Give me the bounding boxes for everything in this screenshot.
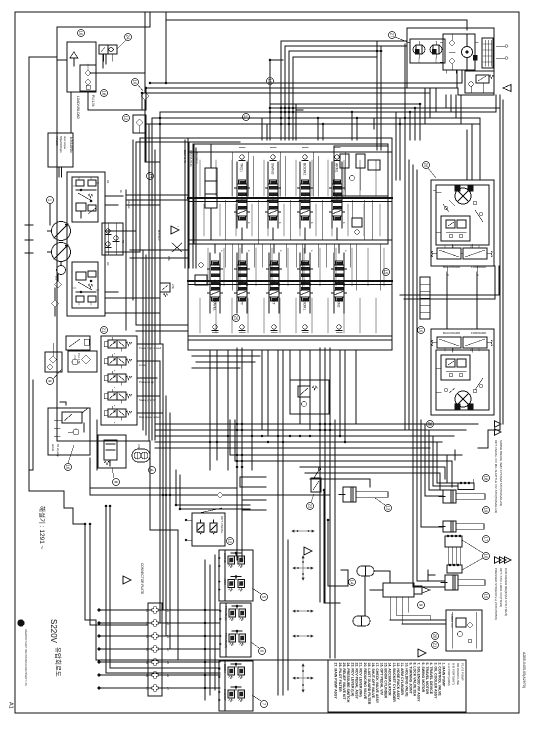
- svg-text:b: b: [310, 222, 313, 224]
- svg-text:Pressure up: Pressure up: [139, 380, 155, 384]
- svg-text:13. BUCKET CYLINDER: 13. BUCKET CYLINDER: [392, 663, 396, 703]
- ref 17a: [147, 173, 154, 180]
- wire bundle D2 links: [230, 420, 452, 490]
- svg-text:7: 7: [262, 703, 267, 706]
- pilot relief block box: [67, 42, 96, 92]
- svg-text:BOOM2: BOOM2: [303, 163, 307, 175]
- svg-text:Swing priority: Swing priority: [139, 398, 156, 402]
- svg-text:PRESSED STD(EXCV+) 2STD(TR5/8): PRESSED STD(EXCV+) 2STD(TR5/8): [494, 568, 498, 620]
- legend right col: [447, 663, 465, 686]
- warning tri d: [304, 547, 312, 555]
- swing motor box: [443, 34, 475, 70]
- note block 2: [494, 557, 511, 620]
- travel2 brake box: [441, 355, 470, 380]
- regulator 2 detail: [73, 268, 99, 305]
- svg-text:27: 27: [390, 33, 395, 38]
- travel1 wires: [433, 190, 483, 248]
- mcv striping upper: [200, 160, 376, 196]
- svg-text:a: a: [113, 422, 115, 424]
- swing gauge detail: [483, 40, 492, 66]
- ref 6: [259, 648, 266, 655]
- svg-text:AT of MCV: AT of MCV: [195, 152, 198, 164]
- ref 23: [307, 503, 314, 510]
- svg-text:P2 of pump: P2 of pump: [56, 444, 59, 457]
- pilot return pair: [106, 506, 220, 673]
- label TR(L): [237, 162, 247, 184]
- svg-text:ARM: ARM: [223, 579, 227, 586]
- svg-text:24. PRESSURE SWITCH: 24. PRESSURE SWITCH: [346, 663, 350, 703]
- mcv striping lower: [208, 248, 384, 286]
- tri marker right: [503, 85, 511, 92]
- lever valve: [311, 468, 321, 492]
- ref 19: [483, 507, 490, 514]
- travel2 motor: [455, 391, 471, 407]
- pilot feed pair: [85, 480, 90, 625]
- pu filter box: [68, 351, 97, 372]
- spool SWING: [266, 180, 281, 220]
- wire bundle D2: [230, 455, 460, 479]
- svg-text:a: a: [310, 250, 313, 252]
- ref 21: [101, 327, 108, 334]
- svg-text:유압회로도: 유압회로도: [54, 647, 62, 677]
- label BOOM1: [300, 297, 310, 313]
- spool OPT: [235, 261, 250, 301]
- wire pilot bundle S: [176, 470, 250, 513]
- svg-text:1: 1: [48, 199, 53, 202]
- svg-text:12: 12: [124, 116, 129, 121]
- svg-text:FORWARD: FORWARD: [471, 331, 487, 335]
- wire ref16a: [138, 85, 143, 91]
- bucket cylinder: [441, 575, 485, 590]
- engine shaft: [59, 167, 62, 177]
- svg-text:P3: P3: [54, 276, 58, 280]
- svg-text:6. SWING MOTOR: 6. SWING MOTOR: [421, 663, 425, 693]
- swing gauge box: [482, 38, 493, 68]
- wire x377: [377, 42, 381, 150]
- ref 16a: [132, 79, 139, 86]
- pilot group boom/bkt: [218, 661, 253, 711]
- svg-text:TR(L): TR(L): [240, 163, 244, 172]
- opt pedal box: [192, 513, 225, 546]
- svg-text:19. LAST GUARD FILTER: 19. LAST GUARD FILTER: [367, 663, 371, 705]
- svg-text:18. SHUT-OFF VALVE: 18. SHUT-OFF VALVE: [371, 663, 375, 699]
- svg-text:20. REDUCING VALVE: 20. REDUCING VALVE: [363, 663, 367, 700]
- small labels col: [121, 200, 160, 244]
- svg-text:a: a: [113, 387, 115, 389]
- mcv vert grid2: [225, 152, 380, 290]
- mcv small relief 1: [352, 218, 362, 234]
- wire ref7: [252, 695, 261, 701]
- svg-text:Travel high speed: Travel high speed: [139, 346, 162, 350]
- ref 26b: [427, 421, 434, 428]
- wire ref6: [251, 642, 259, 648]
- svg-text:4. TRAVEL DEVICE: 4. TRAVEL DEVICE: [429, 663, 433, 695]
- svg-text:A1: A1: [8, 702, 14, 709]
- pump port lines: [105, 196, 140, 292]
- wire boundary tie: [29, 380, 33, 470]
- right bus: [467, 100, 503, 448]
- svg-text:3. OIL COOLER ASSY: 3. OIL COOLER ASSY: [433, 663, 437, 700]
- spool ARM1: [330, 180, 345, 220]
- svg-text:15. BOOM CYLINDER: 15. BOOM CYLINDER: [384, 663, 388, 699]
- note block 1: [494, 421, 503, 513]
- wire bundle D: [155, 424, 478, 448]
- svg-text:DR DRAIN LINE: DR DRAIN LINE: [456, 663, 460, 685]
- svg-text:21: 21: [433, 643, 438, 648]
- svg-text:air brk: air brk: [51, 444, 54, 452]
- svg-text:C/W DOZER REQD(A4 STD,TR1/2): C/W DOZER REQD(A4 STD,TR1/2): [504, 568, 508, 616]
- wire pair B: [142, 27, 462, 110]
- ref 19c: [267, 78, 274, 85]
- E mark 1: [455, 450, 462, 460]
- mcv left entry verticals: [185, 140, 196, 268]
- svg-text:27. MAIN PUMP ASSY: 27. MAIN PUMP ASSY: [334, 663, 338, 700]
- mcv to travel verticals: [396, 112, 400, 180]
- svg-text:TRAVEL(L): TRAVEL(L): [224, 606, 228, 621]
- ref 10a: [78, 30, 85, 37]
- svg-text:19: 19: [484, 508, 489, 513]
- svg-text:2.5k: 2.5k: [167, 256, 171, 262]
- filter diamond 2: [52, 288, 59, 316]
- mcv inner top: [194, 144, 388, 244]
- svg-text:SWING: SWING: [223, 553, 227, 564]
- wire box right of crosses: [324, 490, 348, 603]
- pilot feed bottom: [90, 625, 148, 660]
- svg-text:해설기 : 1291 ~: 해설기 : 1291 ~: [38, 506, 47, 550]
- ref 13: [385, 505, 392, 512]
- swing makeup checks: [449, 34, 477, 70]
- svg-text:5. TRAVEL MOTOR: 5. TRAVEL MOTOR: [425, 663, 429, 695]
- swing motor: [462, 34, 473, 70]
- pilot group travel: [219, 603, 251, 657]
- pump center manifold: [102, 223, 123, 255]
- accumulator 2: [353, 616, 370, 626]
- mcv top entry verticals: [262, 112, 357, 140]
- travel2 wires: [436, 348, 483, 392]
- swing valve capsule 2: [430, 41, 442, 58]
- svg-text:18: 18: [102, 91, 107, 96]
- solenoid v2: [104, 354, 132, 372]
- svg-text:A2: A2: [106, 262, 110, 266]
- svg-text:20: 20: [433, 634, 438, 639]
- svg-text:PU-1.5k: PU-1.5k: [91, 95, 95, 107]
- swivel wires: [390, 597, 446, 624]
- axis mark 1: [292, 530, 314, 532]
- svg-text:OPT. STD. LOCK V/V(TR4/2): OPT. STD. LOCK V/V(TR4/2): [499, 568, 503, 607]
- arm cylinder: [439, 521, 484, 532]
- arm1 regen detail: [340, 154, 380, 190]
- pressure sw pair: [132, 444, 150, 462]
- mcv gallery mid: [188, 240, 392, 244]
- warning tri b: [123, 576, 131, 584]
- ref 18: [483, 475, 490, 482]
- wire bundle A drops: [281, 41, 293, 140]
- ref 10: [65, 464, 72, 471]
- svg-text:a: a: [113, 405, 115, 407]
- travel1 motor detail: [449, 186, 477, 206]
- svg-text:9. TURNING JOINT: 9. TURNING JOINT: [408, 663, 412, 695]
- wire ref9: [53, 369, 62, 379]
- travel1 counterbalance: [432, 245, 493, 259]
- svg-text:8. LOCK VALVE 2EA: 8. LOCK VALVE 2EA: [413, 663, 417, 697]
- engine text: [55, 136, 74, 153]
- boom cylinder: [339, 487, 388, 502]
- ref 15: [483, 593, 490, 600]
- regulator 1 detail: [73, 177, 99, 218]
- axis mark 3: [293, 610, 313, 612]
- pu filter diamond: [72, 355, 91, 365]
- reducing valve box: [98, 435, 126, 468]
- wire ref5: [252, 588, 261, 594]
- engine box: [48, 133, 73, 167]
- svg-text:18: 18: [484, 476, 489, 481]
- svg-text:1. MAIN PUMP: 1. MAIN PUMP: [442, 663, 446, 688]
- svg-text:25: 25: [234, 316, 239, 321]
- label BOOM2: [300, 162, 310, 184]
- spool TR(L): [235, 180, 250, 220]
- ref 24: [125, 34, 132, 41]
- svg-text:58ps/2100rpm: 58ps/2100rpm: [59, 136, 63, 153]
- xx mark: [167, 243, 182, 262]
- wire ref8: [112, 468, 114, 478]
- wire bundle C turns: [400, 104, 420, 140]
- svg-text:a: a: [220, 250, 223, 252]
- shutoff detail: [51, 420, 79, 457]
- svg-text:BKT: BKT: [272, 298, 276, 305]
- travel1 inner box: [436, 185, 489, 245]
- svg-text:9: 9: [419, 604, 424, 607]
- valve sub relief: [80, 64, 96, 91]
- svg-text:9: 9: [48, 380, 53, 383]
- svg-text:16: 16: [484, 554, 489, 559]
- wire ref23: [311, 494, 314, 502]
- travel inter-block wires: [447, 272, 477, 329]
- svg-text:B1: B1: [145, 609, 148, 613]
- spool TRAVEL: [208, 261, 223, 301]
- opt pedal stubs: [185, 519, 192, 541]
- wire left column verticals: [126, 118, 155, 440]
- pu valve: [66, 336, 90, 364]
- connector symbols: [98, 607, 169, 691]
- travel2 inner box: [436, 350, 489, 410]
- solenoid bank box: [101, 336, 137, 425]
- check valve diamond: [141, 12, 149, 110]
- svg-text:ARM2: ARM2: [337, 298, 341, 308]
- svg-text:a: a: [113, 353, 115, 355]
- boundary ticks: [25, 225, 33, 253]
- svg-text:21. RCV LEVER (RH): 21. RCV LEVER (RH): [359, 663, 363, 697]
- swing to bus verticals: [425, 88, 446, 124]
- ref16 leaders: [462, 540, 483, 570]
- ref 11c: [243, 114, 250, 121]
- svg-text:10: 10: [79, 31, 84, 36]
- wire E loops: [240, 477, 266, 510]
- svg-text:A-A PORT(ARM): A-A PORT(ARM): [447, 663, 451, 686]
- ref 27: [389, 32, 396, 39]
- label SWING: [268, 162, 278, 184]
- pu left box: [45, 343, 62, 372]
- riser ARM1: [331, 147, 345, 240]
- svg-text:b: b: [342, 222, 345, 224]
- svg-text:A4: A4: [166, 648, 169, 652]
- svg-text:B7: B7: [145, 687, 148, 691]
- wire ref27: [395, 37, 410, 43]
- manifold checks: [105, 223, 119, 255]
- wire ref13: [375, 498, 385, 505]
- hose rack: [420, 277, 430, 319]
- ref 20: [432, 633, 439, 640]
- opt pedal valves: [197, 508, 224, 534]
- pilot shutoff box: [48, 408, 90, 455]
- ref 14: [349, 579, 356, 586]
- negcon box: [290, 380, 329, 414]
- wire top box: [165, 20, 167, 83]
- solenoid v3: [104, 371, 132, 389]
- gear pump: [54, 262, 66, 281]
- svg-text:!: !: [176, 226, 180, 227]
- legend parts list: [328, 660, 466, 712]
- svg-text:14. ACCUMULATOR: 14. ACCUMULATOR: [388, 663, 392, 696]
- pump 2: [48, 243, 71, 262]
- svg-text:5: 5: [262, 596, 267, 599]
- svg-text:a: a: [247, 250, 250, 252]
- svg-text:A6: A6: [166, 674, 169, 678]
- riser OPT: [237, 244, 250, 332]
- svg-text:A3: A3: [166, 635, 169, 639]
- svg-text:2. CONTROL VALVE: 2. CONTROL VALVE: [437, 663, 441, 697]
- travel1 motor: [455, 188, 471, 204]
- solenoid v5: [104, 406, 132, 424]
- svg-text:26: 26: [424, 163, 429, 168]
- travel1 ports: [447, 266, 479, 277]
- svg-text:BOOM: BOOM: [223, 664, 227, 673]
- wire boundary jog: [29, 56, 57, 58]
- axis mark 5: [293, 664, 313, 692]
- svg-text:BACKWARD: BACKWARD: [443, 331, 461, 335]
- svg-text:16: 16: [419, 328, 424, 333]
- svg-text:b: b: [247, 222, 250, 224]
- svg-text:LOAD/UNLOAD: LOAD/UNLOAD: [76, 96, 80, 120]
- riser BKT: [269, 244, 282, 332]
- svg-text:A5: A5: [166, 661, 169, 665]
- svg-text:A1: A1: [106, 180, 110, 184]
- filter diamond 1: [55, 275, 62, 289]
- ref 15b: [383, 269, 390, 276]
- travel mid bus: [400, 266, 499, 299]
- wire bundle D drops left: [155, 413, 160, 430]
- svg-text:Dr: Dr: [119, 190, 123, 193]
- bucket cyl block: [447, 564, 462, 573]
- label ARM2: [334, 297, 344, 313]
- ref 16: [483, 553, 490, 560]
- lock vv detail: [452, 612, 476, 648]
- solenoid bank outputs: [137, 344, 163, 413]
- wire boundary top band: [166, 12, 467, 30]
- cyl2 block: [458, 479, 474, 490]
- wire bundle A: [281, 41, 407, 57]
- travel2 motor detail: [449, 388, 477, 409]
- swing drop lines: [419, 58, 436, 63]
- port labels: [106, 180, 123, 266]
- mcv E mark: [296, 105, 303, 140]
- accumulator wires: [365, 571, 390, 616]
- svg-text:13: 13: [386, 506, 391, 511]
- swing gauge ext: [496, 45, 508, 60]
- svg-text:SWING: SWING: [271, 163, 275, 175]
- mcv small relief 2: [195, 263, 207, 285]
- wire bundle C drops: [136, 95, 500, 344]
- svg-text:21: 21: [102, 328, 107, 333]
- mcv drop wires: [210, 350, 356, 560]
- spool BOOM1: [298, 261, 313, 301]
- svg-text:24: 24: [126, 35, 131, 40]
- svg-text:2-way: 2-way: [139, 363, 147, 367]
- swing outer boundary: [407, 28, 494, 95]
- svg-text:B3: B3: [145, 635, 148, 639]
- svg-text:17: 17: [484, 537, 489, 542]
- axis mark 2: [293, 556, 313, 580]
- ref 12a: [123, 115, 130, 122]
- regulator 2 box: [72, 262, 98, 308]
- svg-text:BACKWARD: BACKWARD: [443, 265, 461, 269]
- svg-text:max torque: max torque: [63, 136, 67, 150]
- mcv left entry labels: [183, 150, 198, 167]
- pump 1: [48, 222, 71, 241]
- travel1 brake detail: [446, 220, 466, 238]
- wire boundary stair: [29, 57, 178, 660]
- travel2 brake detail: [446, 359, 466, 377]
- svg-text:B-B PORT(BKT): B-B PORT(BKT): [452, 663, 456, 685]
- logo mark: [18, 620, 24, 626]
- svg-text:4TNE98: 4TNE98: [55, 136, 59, 146]
- mcv E mark2: [374, 119, 381, 129]
- label ARM1: [332, 162, 342, 184]
- riser TR(L): [236, 147, 250, 240]
- svg-text:16. OPT PEDAL V/V: 16. OPT PEDAL V/V: [379, 663, 383, 696]
- svg-text:OPT. PEDAL V/V M/L SHUTTLE V/V: OPT. PEDAL V/V M/L SHUTTLE V/V STD(TRAVE…: [494, 440, 498, 513]
- mcv gallery upper: [188, 152, 392, 202]
- wire ref26: [428, 168, 436, 178]
- svg-text:7. SOLENOID V/V ASSY: 7. SOLENOID V/V ASSY: [417, 663, 421, 703]
- ref 25: [233, 315, 240, 322]
- mcv striping bottom: [200, 298, 376, 333]
- svg-text:S220V: S220V: [49, 619, 58, 644]
- travel1 brake box: [441, 216, 470, 241]
- svg-text:23. RCV LEVER (LH): 23. RCV LEVER (LH): [350, 663, 354, 697]
- ref 12: [227, 538, 234, 545]
- ref 18a: [101, 90, 108, 97]
- check diamond pilot: [90, 492, 330, 498]
- ref 9: [47, 378, 54, 385]
- reducing valve spool: [104, 440, 117, 466]
- axis mark 4: [293, 635, 313, 637]
- travel2 outer: [431, 329, 494, 415]
- svg-text:B4: B4: [145, 648, 148, 652]
- svg-text:SWING BRAKE 4WD SYSTEM STD(TRA: SWING BRAKE 4WD SYSTEM STD(TRAVEL2/2): [499, 440, 503, 506]
- svg-text:OPT. PEDAL: OPT. PEDAL: [220, 516, 224, 534]
- wire ref1: [49, 204, 51, 225]
- svg-text:12. HOSE RACK ASSY: 12. HOSE RACK ASSY: [396, 663, 400, 701]
- riser SWING: [267, 147, 281, 240]
- ref 8: [113, 479, 120, 486]
- straight travel spool: [205, 144, 217, 240]
- svg-text:23: 23: [308, 504, 313, 509]
- pilot drop lines: [237, 348, 335, 695]
- svg-text:11: 11: [244, 115, 249, 120]
- connector plate body: [148, 603, 162, 696]
- shutoff lever valve: [60, 402, 88, 432]
- svg-text:a: a: [113, 370, 115, 372]
